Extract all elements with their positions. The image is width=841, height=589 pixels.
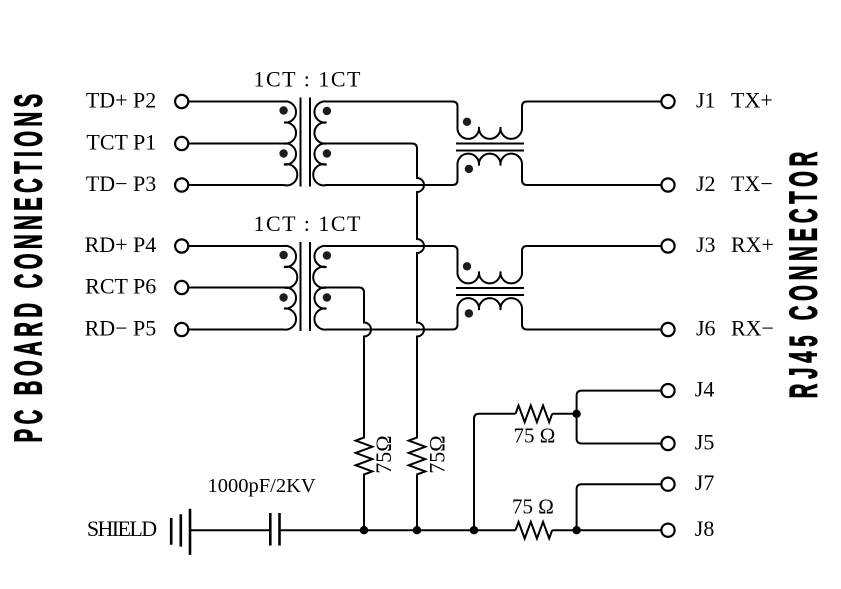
wire choke L1 to J1 xyxy=(527,101,662,103)
wire T2 secondary top to choke L2 xyxy=(327,245,453,247)
wire T1 secondary bottom to choke L1 xyxy=(327,184,453,186)
wire branch to J7 xyxy=(577,484,662,530)
wire shield to capacitor C1 xyxy=(190,529,269,531)
resistor R4 75ohm xyxy=(516,522,553,539)
choke L2 bottom winding xyxy=(453,298,528,329)
svg-text:J1: J1 xyxy=(696,88,716,113)
pin J6 xyxy=(661,323,674,336)
transformer T1 primary winding with wires TD+/TCT/TD- xyxy=(189,101,297,185)
wire ground rail xyxy=(281,529,516,531)
choke L1 bottom winding xyxy=(453,154,528,185)
svg-text:J3: J3 xyxy=(696,232,716,257)
svg-text:SHIELD: SHIELD xyxy=(87,516,156,541)
pin P1 xyxy=(175,137,188,150)
svg-text:RX−: RX− xyxy=(731,316,774,341)
pin P6 xyxy=(175,281,188,294)
svg-text:75 Ω: 75 Ω xyxy=(512,495,554,519)
svg-text:TD− P3: TD− P3 xyxy=(86,171,156,196)
junction dots xyxy=(360,410,581,535)
choke L1 phase dots xyxy=(463,118,473,173)
pin J8 xyxy=(661,524,674,537)
choke L2 phase dots xyxy=(463,262,473,318)
pin P3 xyxy=(175,178,188,191)
transformer T2 phase dots xyxy=(279,251,331,302)
svg-text:RX+: RX+ xyxy=(731,232,774,257)
svg-text:PC BOARD CONNECTIONS: PC BOARD CONNECTIONS xyxy=(7,89,51,442)
svg-text:RCT P6: RCT P6 xyxy=(85,274,156,299)
svg-text:1000pF/2KV: 1000pF/2KV xyxy=(208,475,316,497)
pin P2 xyxy=(175,95,188,108)
wire node to J4 xyxy=(577,391,662,414)
wire choke L2 to J3 xyxy=(527,245,662,247)
pin J7 xyxy=(661,478,674,491)
capacitor C1 plates xyxy=(270,513,279,546)
pin P5 xyxy=(175,323,188,336)
svg-text:J6: J6 xyxy=(696,316,716,341)
svg-text:TX+: TX+ xyxy=(731,88,773,113)
wire branch from rail up to resistor R3 xyxy=(474,414,516,530)
svg-text:J7: J7 xyxy=(695,470,715,495)
pin J1 xyxy=(661,95,674,108)
wire choke L2 to J6 xyxy=(527,329,662,331)
transformer T1 secondary winding xyxy=(313,101,330,185)
svg-text:RD− P5: RD− P5 xyxy=(85,316,157,341)
wire node to J5 xyxy=(577,414,662,444)
transformer T2 secondary winding xyxy=(313,246,330,330)
pin J3 xyxy=(661,239,674,252)
svg-text:1CT : 1CT: 1CT : 1CT xyxy=(254,211,362,236)
svg-text:J4: J4 xyxy=(695,377,715,402)
svg-text:75Ω: 75Ω xyxy=(371,435,396,473)
pin J4 xyxy=(661,384,674,397)
svg-text:75 Ω: 75 Ω xyxy=(514,424,556,448)
wire T2 center tap with hop, resistor R1 75ohm, to rail xyxy=(327,288,373,531)
svg-text:J2: J2 xyxy=(696,171,716,196)
svg-text:RD+ P4: RD+ P4 xyxy=(85,232,157,257)
svg-text:J5: J5 xyxy=(695,430,715,455)
wire T1 center tap with hops, resistor R2 75ohm, to rail xyxy=(327,144,426,531)
svg-text:J8: J8 xyxy=(695,516,715,541)
wire rail to J8 xyxy=(552,529,661,531)
svg-text:1CT : 1CT: 1CT : 1CT xyxy=(254,67,362,92)
svg-text:TD+ P2: TD+ P2 xyxy=(86,88,156,113)
pin J2 xyxy=(661,178,674,191)
wire R3 to node xyxy=(552,413,576,415)
transformer T2 primary winding with wires RD+/RCT/RD- xyxy=(189,246,297,330)
choke L1 core xyxy=(456,144,524,151)
wire T1 secondary top to choke L1 and J1 xyxy=(327,101,453,103)
transformer T1 core xyxy=(301,98,311,187)
transformer T1 phase dots xyxy=(279,106,331,157)
pin J5 xyxy=(661,437,674,450)
svg-text:RJ45 CONNECTOR: RJ45 CONNECTOR xyxy=(782,147,826,398)
svg-text:TX−: TX− xyxy=(731,171,773,196)
wire choke L1 to J2 xyxy=(527,184,662,186)
pin P4 xyxy=(175,239,188,252)
transformer T2 core xyxy=(301,242,311,331)
choke L2 core xyxy=(456,288,524,295)
resistor R3 75ohm xyxy=(516,406,553,423)
wire T2 secondary bottom to choke L2 xyxy=(327,329,453,331)
shield symbol xyxy=(171,509,190,555)
choke L2 top winding xyxy=(453,246,528,283)
choke L1 top winding xyxy=(453,102,528,139)
svg-text:TCT P1: TCT P1 xyxy=(86,130,156,155)
svg-text:75Ω: 75Ω xyxy=(424,435,449,473)
